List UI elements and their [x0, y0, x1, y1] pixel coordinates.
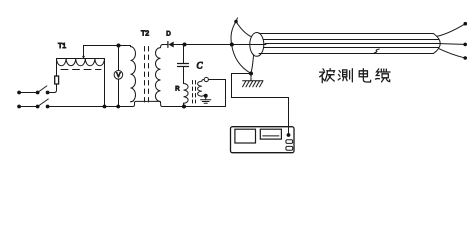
- autotransformer T1 wiper: [83, 46, 85, 57]
- junction T1 right leg to rail: [103, 105, 107, 109]
- wire: [19, 92, 37, 94]
- transformer T2 secondary winding: [156, 45, 163, 102]
- autotransformer T1 core: [61, 69, 101, 71]
- oscilloscope display trace line: [263, 135, 279, 137]
- label cable under test 电: [359, 69, 371, 82]
- ground earth under cable: [243, 81, 263, 87]
- cable conductor line 1: [264, 39, 439, 41]
- wire: [162, 44, 167, 46]
- wire: [56, 59, 58, 77]
- switch S pole 1 contact right: [46, 91, 50, 95]
- svg-text:C: C: [197, 61, 204, 71]
- cable far end tail top: [437, 24, 465, 36]
- node A electrode top tip: [234, 20, 238, 24]
- wire gap electrode feed: [232, 73, 252, 75]
- autotransformer T1 winding: [57, 59, 105, 66]
- oscilloscope screen: [235, 129, 256, 143]
- cable conductor line 3: [264, 47, 439, 49]
- oscilloscope input terminal: [287, 133, 291, 137]
- wire top HV bus from wiper: [84, 45, 131, 47]
- pulse coupler core: [193, 81, 196, 104]
- cable far end tail middle: [440, 43, 464, 46]
- node tail top terminal: [464, 22, 468, 26]
- node B electrode HV junction: [230, 43, 234, 47]
- fuse FU: [55, 76, 59, 84]
- svg-text:R: R: [175, 86, 180, 92]
- voltmeter PV: [114, 71, 123, 80]
- wire to ground stub: [205, 96, 207, 100]
- wire capacitor top lead: [183, 45, 185, 64]
- capacitor C plate bottom: [178, 66, 189, 68]
- junction pulse secondary bottom: [204, 94, 208, 98]
- transformer T2 core: [145, 47, 149, 105]
- discharge gap electrode tick: [236, 18, 237, 22]
- capacitor C plate top: [178, 63, 189, 65]
- cable fault point s mark: [375, 49, 380, 53]
- wire oscilloscope signal path: [232, 74, 289, 134]
- cable bell mouth lower edge: [251, 53, 254, 73]
- junction capacitor tap: [183, 43, 187, 47]
- wire: [48, 84, 57, 92]
- switch S pole 2 contact: [36, 105, 40, 109]
- wire rail riser to pulse terminal: [208, 80, 225, 107]
- oscilloscope button 2: [286, 146, 293, 150]
- diode D cathode bar: [167, 42, 169, 48]
- pulse coupler secondary winding: [198, 80, 205, 97]
- node C electrode ground junction: [249, 72, 253, 76]
- resistor R coupling coil winding: [184, 84, 189, 104]
- svg-text:T2: T2: [141, 30, 149, 37]
- cable bell mouth upper edge: [236, 22, 253, 38]
- wire: [19, 106, 37, 108]
- junction voltmeter tap: [117, 44, 121, 48]
- wire voltmeter branch: [118, 46, 120, 107]
- switch S pole 2 blade: [38, 99, 49, 107]
- ground (pulse coupler): [201, 100, 211, 103]
- svg-text:T1: T1: [58, 43, 66, 50]
- junction voltmeter to rail: [116, 105, 120, 109]
- cable sheath bottom line: [259, 53, 434, 55]
- oscilloscope display window: [260, 129, 281, 139]
- autotransformer T1 wiper arrowhead: [82, 56, 85, 59]
- wire R to rail: [183, 103, 185, 106]
- cable end cross-section ellipse: [250, 33, 264, 57]
- oscilloscope button 1: [286, 140, 293, 144]
- oscilloscope U1 case: [231, 127, 295, 153]
- wire bottom rail: [48, 101, 226, 106]
- transformer T2 primary winding: [131, 46, 136, 102]
- switch S pole 2 contact right: [46, 105, 50, 109]
- node tail middle terminal: [463, 43, 467, 47]
- wire capacitor bottom lead: [183, 67, 185, 84]
- wire sheath to earth: [250, 74, 252, 81]
- cable conductor line 2 continued: [265, 43, 440, 45]
- cable far end cap: [434, 34, 441, 54]
- discharge gap electrode crescent: [231, 22, 251, 74]
- node L input terminal top: [17, 91, 21, 95]
- cable sheath top line: [259, 33, 434, 35]
- wire HV output: [174, 44, 251, 46]
- label cable under test 测: [338, 69, 352, 82]
- switch S pole 1 contact: [36, 91, 40, 95]
- node N input terminal bottom: [17, 105, 21, 109]
- node tail bottom terminal: [463, 56, 467, 60]
- cable far end tail bottom: [439, 49, 465, 58]
- diode D triangle: [168, 42, 173, 48]
- label cable under test 缆: [375, 69, 390, 82]
- terminal circle pulse output: [204, 77, 208, 81]
- label cable under test 被: [320, 69, 335, 83]
- svg-text:D: D: [166, 31, 171, 38]
- cable conductor line 2: [250, 44, 266, 46]
- switch S pole 1 blade: [38, 86, 47, 93]
- wire T1 right leg: [104, 59, 106, 107]
- junction R to rail: [182, 105, 186, 109]
